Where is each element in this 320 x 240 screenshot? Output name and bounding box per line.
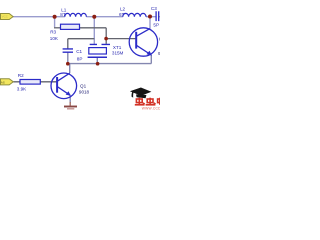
svg-text:VCC: VCC bbox=[2, 15, 9, 19]
svg-text:L2: L2 bbox=[120, 7, 126, 12]
svg-text:C3: C3 bbox=[151, 6, 157, 11]
svg-text:Q1: Q1 bbox=[80, 84, 87, 89]
svg-text:3.9K: 3.9K bbox=[17, 87, 27, 92]
svg-text:10K: 10K bbox=[50, 36, 59, 41]
svg-text:8T: 8T bbox=[60, 12, 66, 17]
svg-text:9018: 9018 bbox=[79, 89, 90, 94]
svg-text:AS: AS bbox=[1, 80, 5, 84]
svg-text:WWW.CCD: WWW.CCD bbox=[142, 106, 160, 110]
svg-text:6T: 6T bbox=[119, 12, 125, 17]
svg-text:8P: 8P bbox=[77, 57, 83, 62]
svg-text:C1: C1 bbox=[76, 49, 82, 54]
svg-text:Q2: Q2 bbox=[159, 37, 160, 42]
svg-text:R2: R2 bbox=[18, 73, 24, 78]
svg-text:90: 90 bbox=[158, 51, 160, 56]
svg-text:R3: R3 bbox=[50, 30, 56, 35]
svg-text:315M: 315M bbox=[112, 50, 124, 55]
svg-text:5P: 5P bbox=[153, 23, 159, 28]
